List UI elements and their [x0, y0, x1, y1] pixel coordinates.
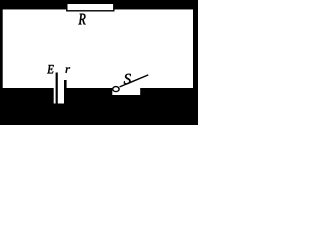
wire right [193, 0, 198, 125]
switch S1 lever [120, 75, 149, 87]
wire bottom black region [0, 88, 198, 125]
wire left [0, 0, 3, 125]
label S [124, 74, 131, 84]
wire top bus [0, 0, 198, 9]
node battery gap [54, 88, 64, 104]
label r [66, 67, 71, 72]
label E [47, 65, 54, 73]
switch S1 pivot circle [113, 87, 119, 92]
node switch gap [112, 88, 140, 96]
battery E1 short plate [64, 80, 67, 89]
battery E1 long plate [56, 73, 58, 104]
label R [78, 14, 85, 25]
resistor R1 box [67, 3, 114, 11]
